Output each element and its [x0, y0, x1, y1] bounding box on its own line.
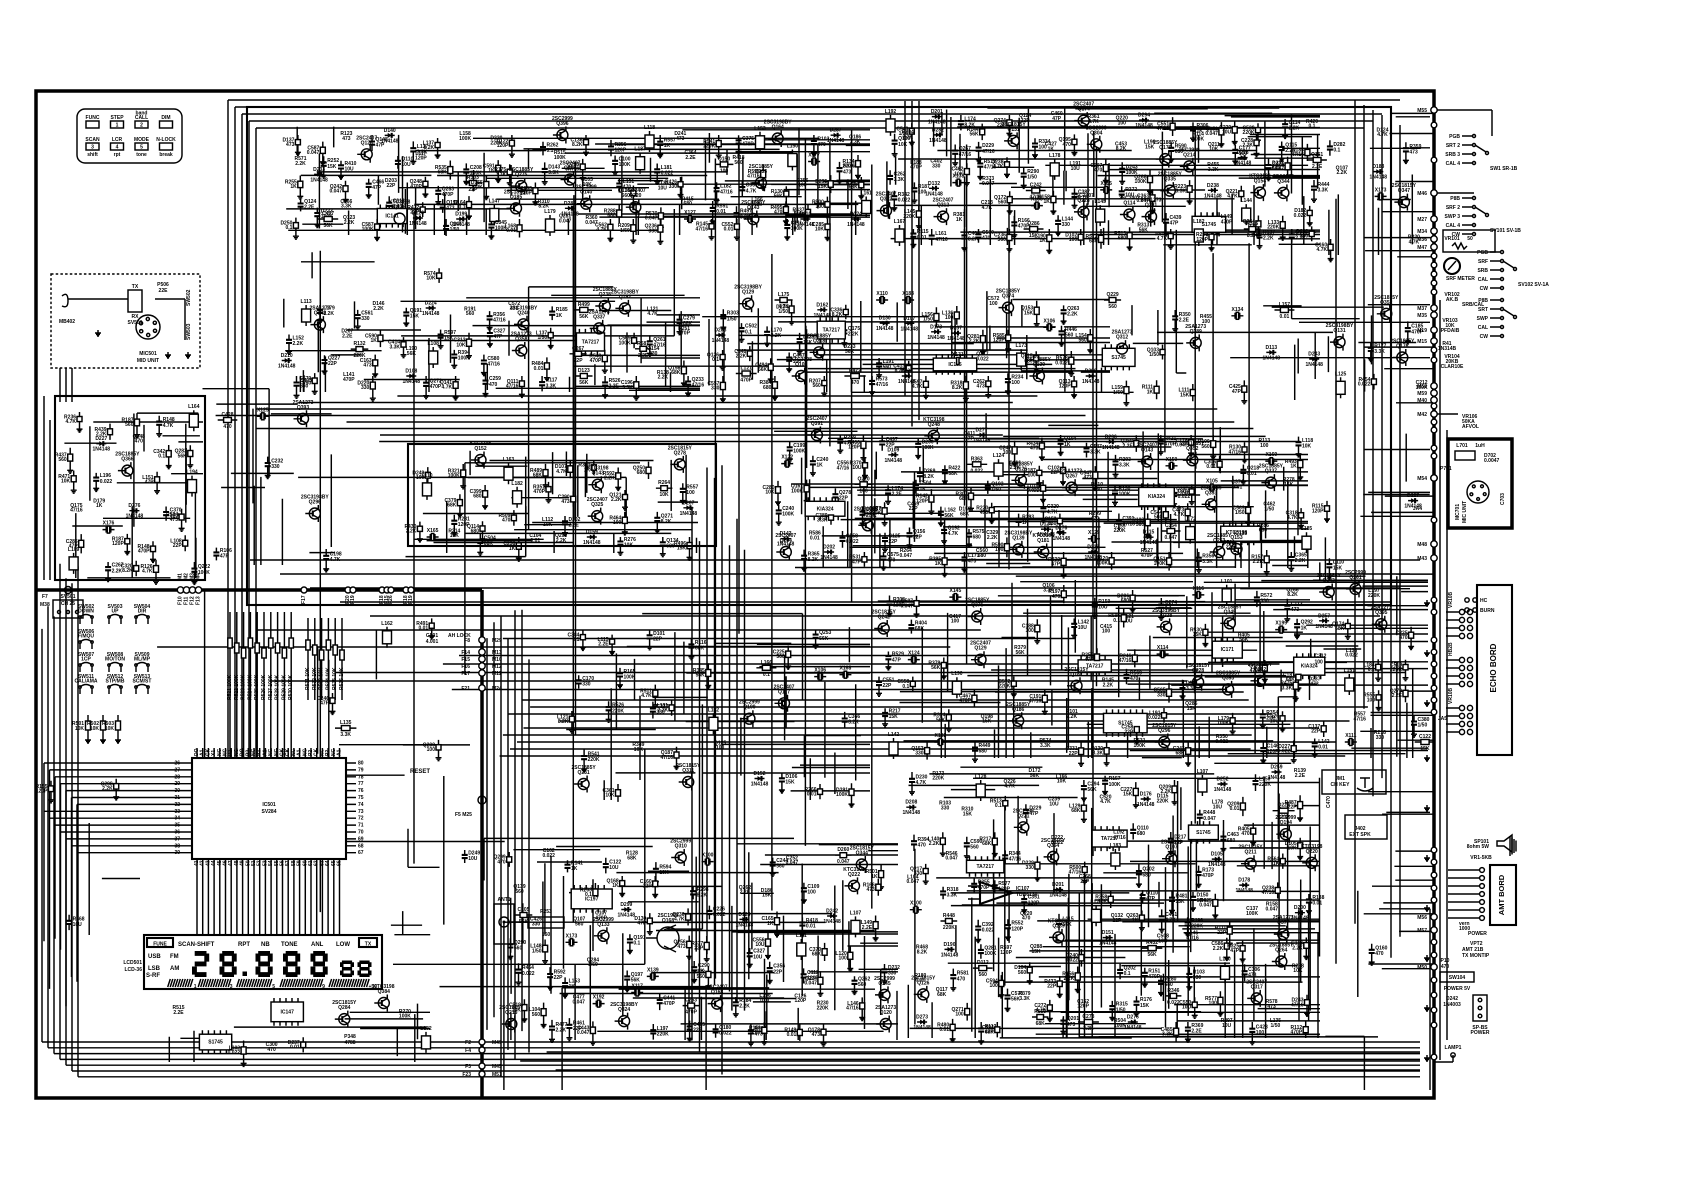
svg-text:220K: 220K [471, 184, 483, 190]
svg-text:220K: 220K [1157, 798, 1169, 804]
svg-text:22P: 22P [1217, 930, 1227, 936]
svg-text:M10: M10 [492, 657, 502, 663]
svg-text:M29: M29 [492, 638, 502, 644]
svg-text:0.022: 0.022 [228, 1050, 241, 1056]
svg-text:L192: L192 [885, 109, 897, 115]
svg-text:2SC3198BY: 2SC3198BY [764, 120, 792, 126]
svg-text:IC185: IC185 [948, 362, 962, 368]
svg-text:8.2K: 8.2K [832, 312, 843, 318]
svg-text:22P: 22P [889, 539, 899, 545]
svg-text:KTC3198: KTC3198 [1301, 844, 1323, 850]
svg-text:C242: C242 [1030, 183, 1042, 189]
svg-text:L118: L118 [644, 125, 655, 131]
svg-text:22P: 22P [1124, 729, 1134, 735]
svg-text:100: 100 [859, 488, 868, 494]
svg-text:0.022: 0.022 [719, 1031, 732, 1037]
svg-text:SV102 SV-1A: SV102 SV-1A [1518, 282, 1549, 288]
svg-text:10U: 10U [852, 465, 862, 471]
svg-text:L132: L132 [420, 1026, 432, 1032]
svg-text:5: 5 [272, 984, 275, 990]
svg-text:3.3K: 3.3K [1176, 189, 1187, 195]
svg-text:47/16: 47/16 [1353, 716, 1366, 722]
svg-text:22P: 22P [1288, 805, 1298, 811]
svg-text:330: 330 [1157, 692, 1166, 698]
svg-text:10K: 10K [1057, 779, 1067, 785]
svg-text:15K: 15K [1024, 310, 1034, 316]
svg-text:0.047: 0.047 [786, 860, 799, 866]
svg-text:F5 M25: F5 M25 [455, 812, 472, 818]
svg-text:36: 36 [174, 830, 180, 836]
svg-text:100: 100 [716, 745, 725, 751]
svg-text:D124: D124 [850, 212, 862, 218]
svg-text:330: 330 [361, 316, 370, 322]
svg-text:10U: 10U [755, 942, 765, 948]
svg-text:1K: 1K [1147, 389, 1154, 395]
svg-text:1N4148: 1N4148 [927, 335, 945, 341]
svg-text:1: 1 [116, 123, 119, 129]
svg-text:D242: D242 [826, 909, 838, 915]
svg-text:2SC1815Y: 2SC1815Y [1238, 845, 1263, 851]
svg-text:D162: D162 [816, 302, 828, 308]
svg-text:79: 79 [358, 767, 364, 773]
svg-text:KTC3198: KTC3198 [1226, 530, 1248, 536]
svg-text:KTC3198: KTC3198 [389, 200, 411, 206]
svg-text:L110: L110 [421, 473, 432, 479]
svg-text:X145: X145 [950, 588, 962, 594]
svg-text:680: 680 [973, 535, 982, 541]
svg-text:0.1: 0.1 [572, 637, 579, 643]
svg-text:2.2E: 2.2E [1179, 318, 1190, 324]
svg-text:1N4148: 1N4148 [1140, 540, 1158, 546]
svg-text:D218: D218 [1237, 150, 1249, 156]
svg-text:IC501: IC501 [262, 802, 276, 808]
svg-text:R363: R363 [971, 456, 983, 462]
svg-text:15K: 15K [818, 184, 828, 190]
svg-text:M46: M46 [1417, 191, 1427, 197]
svg-text:2.2E: 2.2E [304, 205, 315, 211]
svg-text:0.047: 0.047 [645, 216, 658, 222]
svg-text:X127: X127 [684, 210, 696, 216]
svg-text:330: 330 [1193, 975, 1202, 981]
svg-text:68K: 68K [1176, 751, 1186, 757]
svg-text:2.2K: 2.2K [556, 1028, 567, 1034]
svg-text:10U: 10U [1213, 805, 1223, 811]
svg-text:470P: 470P [343, 377, 355, 383]
svg-text:15K: 15K [1032, 949, 1042, 955]
svg-text:L144: L144 [1240, 198, 1252, 204]
svg-text:1/50: 1/50 [1418, 723, 1428, 729]
svg-text:D107: D107 [903, 316, 915, 322]
svg-text:473: 473 [1267, 1004, 1276, 1010]
svg-text:0.047: 0.047 [982, 181, 995, 187]
svg-text:L108: L108 [427, 341, 439, 347]
svg-text:FM: FM [170, 954, 179, 960]
svg-text:680: 680 [684, 201, 693, 207]
svg-text:56K: 56K [845, 349, 855, 355]
svg-text:1N4148: 1N4148 [1370, 175, 1388, 181]
svg-text:77: 77 [358, 781, 364, 787]
svg-text:1/50: 1/50 [727, 316, 737, 322]
svg-text:47P: 47P [892, 657, 902, 663]
svg-text:4.7K: 4.7K [1377, 132, 1388, 138]
svg-text:470: 470 [223, 424, 232, 430]
svg-text:10K: 10K [543, 522, 553, 528]
svg-text:R528 100K: R528 100K [275, 674, 281, 700]
svg-text:330: 330 [941, 805, 950, 811]
svg-text:2SC2407: 2SC2407 [774, 684, 795, 690]
svg-text:D201: D201 [1052, 882, 1064, 888]
svg-text:10K: 10K [1288, 846, 1298, 852]
svg-text:68K: 68K [447, 502, 457, 508]
svg-text:0.022: 0.022 [1065, 958, 1078, 964]
svg-text:EXT SPK: EXT SPK [1349, 832, 1371, 838]
svg-text:560: 560 [1078, 338, 1087, 344]
svg-text:D210: D210 [281, 353, 293, 359]
svg-text:35: 35 [174, 823, 180, 829]
svg-text:560: 560 [1018, 970, 1027, 976]
svg-text:M36: M36 [1417, 237, 1427, 243]
svg-text:10K: 10K [659, 870, 669, 876]
svg-text:473: 473 [561, 499, 570, 505]
svg-text:0.022: 0.022 [1358, 382, 1371, 388]
svg-text:0.022: 0.022 [542, 853, 555, 859]
svg-text:68K: 68K [812, 952, 822, 958]
svg-text:47P: 47P [145, 480, 155, 486]
svg-text:S1745: S1745 [208, 1040, 223, 1046]
svg-text:220K: 220K [943, 925, 955, 931]
svg-text:15K: 15K [1176, 899, 1186, 905]
svg-text:100: 100 [989, 983, 998, 989]
svg-text:2SC3198BY: 2SC3198BY [1326, 323, 1354, 329]
svg-text:0.022: 0.022 [1055, 360, 1068, 366]
svg-text:3.3K: 3.3K [1208, 167, 1219, 173]
svg-text:0.1: 0.1 [745, 329, 752, 335]
svg-text:560: 560 [998, 199, 1007, 205]
svg-text:X192: X192 [593, 995, 605, 1001]
svg-text:A1: A1 [337, 749, 343, 756]
svg-text:1K: 1K [1132, 918, 1139, 924]
svg-text:47P: 47P [1051, 562, 1061, 568]
svg-text:470: 470 [489, 382, 498, 388]
svg-text:X110: X110 [876, 291, 888, 297]
svg-text:1K: 1K [1290, 464, 1297, 470]
svg-text:68K: 68K [1286, 677, 1296, 683]
svg-text:10K: 10K [815, 227, 825, 233]
svg-text:4.7K: 4.7K [948, 531, 959, 537]
svg-text:560: 560 [776, 864, 785, 870]
svg-text:D176: D176 [1140, 792, 1152, 798]
svg-text:220K: 220K [657, 1031, 669, 1037]
svg-text:2.2E: 2.2E [1295, 773, 1306, 779]
svg-text:L175: L175 [778, 292, 790, 298]
svg-text:470: 470 [1094, 168, 1103, 174]
svg-text:473: 473 [342, 136, 351, 142]
svg-text:680: 680 [978, 553, 987, 559]
svg-text:2.2K: 2.2K [556, 538, 567, 544]
svg-text:X177: X177 [808, 153, 820, 159]
svg-text:15K: 15K [1180, 392, 1190, 398]
svg-text:F26: F26 [388, 595, 394, 604]
svg-text:2SC2407: 2SC2407 [587, 497, 608, 503]
svg-text:1N4148: 1N4148 [1204, 193, 1222, 199]
svg-text:330: 330 [1026, 865, 1035, 871]
svg-text:VR101: VR101 [1444, 236, 1460, 242]
svg-text:80: 80 [358, 761, 364, 767]
svg-text:15K: 15K [1123, 792, 1133, 798]
svg-text:470P: 470P [442, 192, 454, 198]
svg-text:22P: 22P [1080, 879, 1090, 885]
svg-text:2.2K: 2.2K [1064, 976, 1075, 982]
svg-text:1N4148: 1N4148 [1135, 123, 1153, 129]
svg-text:3: 3 [230, 984, 233, 990]
svg-text:34: 34 [174, 816, 180, 822]
svg-text:47/16: 47/16 [935, 237, 948, 243]
svg-text:1uH: 1uH [1475, 443, 1485, 449]
svg-text:56K: 56K [936, 717, 946, 723]
svg-text:Q229: Q229 [1106, 292, 1118, 298]
svg-text:8.2K: 8.2K [558, 719, 569, 725]
svg-text:1/50: 1/50 [1149, 352, 1159, 358]
svg-text:R472: R472 [849, 368, 861, 374]
svg-text:X105: X105 [1206, 479, 1218, 485]
svg-text:MB402: MB402 [59, 319, 75, 325]
svg-text:15K: 15K [963, 812, 973, 818]
svg-text:100: 100 [1025, 628, 1034, 634]
svg-text:10U: 10U [1049, 801, 1059, 807]
svg-text:1/50: 1/50 [1092, 487, 1102, 493]
svg-text:M12: M12 [492, 664, 502, 670]
svg-text:4.7K: 4.7K [330, 557, 341, 563]
svg-text:2SC1815Y: 2SC1815Y [1041, 838, 1066, 844]
svg-text:56K: 56K [178, 453, 188, 459]
svg-text:LOW: LOW [336, 942, 350, 948]
svg-text:22P: 22P [574, 358, 584, 364]
svg-text:2.2E: 2.2E [1191, 1029, 1202, 1035]
svg-text:SCAN-SHIFT: SCAN-SHIFT [178, 942, 215, 948]
svg-text:X138: X138 [953, 174, 965, 180]
svg-text:47P: 47P [320, 701, 330, 707]
svg-text:8.2K: 8.2K [808, 557, 819, 563]
svg-text:POWER: POWER [1471, 1030, 1490, 1036]
svg-text:X100: X100 [702, 853, 714, 859]
svg-text:10K: 10K [426, 276, 436, 282]
svg-text:R533 10K: R533 10K [319, 667, 325, 690]
svg-text:X124: X124 [908, 651, 920, 657]
svg-text:D152: D152 [754, 771, 766, 777]
svg-text:8.2K: 8.2K [917, 950, 928, 956]
svg-text:P253: P253 [540, 909, 552, 915]
svg-text:X115: X115 [1100, 181, 1112, 187]
svg-text:SCAN: SCAN [85, 137, 100, 143]
svg-text:F/MQU: F/MQU [78, 634, 94, 640]
svg-text:L100: L100 [1219, 956, 1231, 962]
svg-text:CW: CW [1480, 286, 1489, 292]
svg-text:X139: X139 [647, 967, 659, 973]
svg-text:0.01: 0.01 [1247, 471, 1257, 477]
svg-text:0.022: 0.022 [846, 539, 859, 545]
svg-text:680: 680 [473, 494, 482, 500]
svg-text:SWP 3: SWP 3 [1445, 214, 1461, 220]
svg-text:Q267: Q267 [572, 346, 584, 352]
svg-text:68K: 68K [960, 511, 970, 517]
svg-text:330: 330 [932, 164, 941, 170]
svg-text:100: 100 [951, 619, 960, 625]
svg-text:2.2E: 2.2E [173, 1010, 184, 1016]
svg-text:1N4148: 1N4148 [847, 222, 865, 228]
svg-text:100: 100 [1256, 1030, 1265, 1036]
svg-text:680: 680 [1227, 838, 1236, 844]
svg-text:56K: 56K [1148, 952, 1158, 958]
svg-text:680: 680 [979, 749, 988, 755]
svg-text:M55: M55 [1417, 108, 1427, 114]
svg-text:47/16: 47/16 [720, 189, 733, 195]
svg-text:1N4148: 1N4148 [1049, 893, 1067, 899]
svg-text:100: 100 [989, 301, 998, 307]
svg-text:2SC1885Y: 2SC1885Y [509, 167, 534, 173]
svg-text:D276: D276 [128, 503, 140, 509]
svg-text:2SA1273: 2SA1273 [1273, 174, 1294, 180]
svg-text:100: 100 [816, 204, 825, 210]
svg-text:1/50: 1/50 [1027, 175, 1037, 181]
svg-text:473: 473 [446, 206, 455, 212]
svg-text:2.2K: 2.2K [658, 375, 669, 381]
svg-text:470: 470 [135, 439, 144, 445]
svg-text:2.2K: 2.2K [1289, 125, 1300, 131]
svg-text:0.1: 0.1 [712, 357, 719, 363]
svg-text:D201: D201 [931, 109, 943, 115]
svg-text:F21: F21 [461, 686, 470, 692]
svg-text:2SC2407: 2SC2407 [1073, 193, 1094, 199]
svg-text:R532 10K: R532 10K [312, 667, 318, 690]
svg-text:2.2K: 2.2K [658, 708, 669, 714]
svg-text:R499: R499 [578, 302, 590, 308]
svg-text:2SC3198BY: 2SC3198BY [301, 495, 329, 501]
svg-text:560: 560 [514, 946, 523, 952]
svg-text:C497: C497 [322, 211, 334, 217]
svg-text:470: 470 [1091, 516, 1100, 522]
svg-text:CAL 4: CAL 4 [1446, 161, 1461, 167]
svg-text:4.7K: 4.7K [647, 311, 658, 317]
svg-text:1K: 1K [816, 462, 823, 468]
svg-text:D109: D109 [887, 447, 899, 453]
svg-text:3.3K: 3.3K [622, 385, 633, 391]
svg-text:220K: 220K [932, 776, 944, 782]
svg-text:22P: 22P [1112, 918, 1122, 924]
svg-text:2SA1273: 2SA1273 [309, 306, 330, 312]
svg-text:break: break [159, 152, 173, 158]
svg-text:D233: D233 [313, 167, 325, 173]
svg-text:8.2K: 8.2K [923, 474, 934, 480]
svg-text:22P: 22P [694, 946, 704, 952]
svg-text:KTC3198: KTC3198 [1249, 174, 1271, 180]
svg-text:8ohm 5W: 8ohm 5W [1467, 844, 1490, 850]
svg-text:100K: 100K [448, 473, 460, 479]
svg-text:8.2K: 8.2K [1247, 233, 1258, 239]
svg-text:15K: 15K [803, 340, 813, 346]
svg-text:1N4148: 1N4148 [381, 138, 399, 144]
svg-text:D105: D105 [1211, 852, 1223, 858]
svg-text:1K: 1K [1022, 520, 1029, 526]
svg-text:0.022: 0.022 [982, 928, 995, 934]
svg-text:470P: 470P [742, 142, 754, 148]
svg-text:X111: X111 [1345, 733, 1356, 739]
svg-text:100K: 100K [836, 792, 848, 798]
svg-text:72: 72 [358, 816, 364, 822]
svg-text:0.1: 0.1 [995, 803, 1002, 809]
svg-text:15K: 15K [889, 714, 899, 720]
svg-text:1N4148: 1N4148 [1137, 802, 1155, 808]
svg-text:0.047: 0.047 [572, 1000, 585, 1006]
svg-text:PGB: PGB [1477, 250, 1488, 256]
svg-text:120P: 120P [1011, 926, 1023, 932]
svg-text:220K: 220K [1243, 130, 1255, 136]
svg-text:X116: X116 [1193, 586, 1205, 592]
svg-text:1/50: 1/50 [991, 487, 1001, 493]
svg-text:1N4148: 1N4148 [409, 221, 427, 227]
svg-text:S1745: S1745 [1111, 355, 1126, 361]
svg-text:100: 100 [720, 168, 729, 174]
svg-text:560: 560 [697, 974, 706, 980]
svg-text:220K: 220K [1390, 667, 1402, 673]
svg-text:32: 32 [174, 802, 180, 808]
svg-text:4: 4 [116, 145, 119, 151]
svg-text:100K: 100K [624, 675, 636, 681]
svg-text:2SC2407: 2SC2407 [806, 416, 827, 422]
svg-text:2SC1885Y: 2SC1885Y [1317, 573, 1342, 579]
svg-text:28: 28 [174, 774, 180, 780]
svg-text:D238: D238 [1207, 183, 1219, 189]
svg-text:56K: 56K [931, 665, 941, 671]
svg-text:F17: F17 [461, 671, 470, 677]
svg-text:47/16: 47/16 [959, 152, 972, 158]
svg-text:10K: 10K [634, 747, 644, 753]
svg-text:2SC1885Y: 2SC1885Y [1248, 662, 1273, 668]
svg-text:L152: L152 [708, 707, 720, 713]
svg-text:560: 560 [532, 1012, 541, 1018]
svg-text:8.2K: 8.2K [122, 568, 133, 574]
svg-text:2SC1885Y: 2SC1885Y [965, 598, 990, 604]
svg-text:0.047: 0.047 [1203, 816, 1216, 822]
svg-text:P701: P701 [1440, 466, 1452, 472]
svg-text:10U: 10U [753, 954, 763, 960]
svg-text:10K: 10K [105, 726, 115, 732]
svg-text:KTC3198: KTC3198 [1032, 533, 1054, 539]
svg-text:0.022: 0.022 [1278, 748, 1291, 754]
svg-text:2.2K: 2.2K [1253, 559, 1264, 565]
svg-text:L113: L113 [301, 299, 312, 305]
svg-text:3.3K: 3.3K [894, 177, 905, 183]
svg-text:1K: 1K [96, 503, 103, 509]
svg-text:3.3K: 3.3K [1318, 188, 1329, 194]
svg-text:D113: D113 [1265, 345, 1277, 351]
svg-text:1N4148: 1N4148 [823, 919, 841, 925]
svg-text:0.01: 0.01 [760, 998, 770, 1004]
svg-text:1N4148: 1N4148 [680, 511, 698, 517]
svg-text:M19: M19 [1417, 328, 1427, 334]
svg-text:2.2K: 2.2K [929, 841, 940, 847]
svg-text:330: 330 [669, 184, 678, 190]
svg-text:2SC3198BY: 2SC3198BY [611, 289, 639, 295]
svg-text:473: 473 [968, 559, 977, 565]
svg-text:0.1: 0.1 [459, 204, 466, 210]
svg-text:473: 473 [1083, 475, 1092, 481]
svg-text:47/16: 47/16 [1009, 857, 1022, 863]
svg-text:2SC2407: 2SC2407 [1246, 979, 1267, 985]
svg-text:L161: L161 [860, 191, 872, 197]
svg-text:D283: D283 [714, 328, 726, 334]
svg-text:120P: 120P [1059, 384, 1071, 390]
svg-text:HC: HC [1480, 598, 1488, 604]
